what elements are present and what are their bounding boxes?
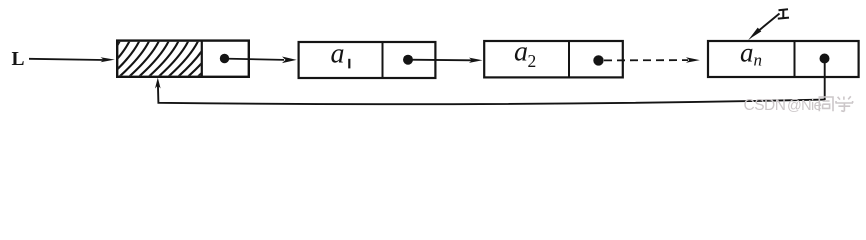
- wire r label to node an: [748, 14, 780, 41]
- node L label: [12, 49, 25, 70]
- wire a1 to a2: [408, 58, 483, 63]
- node an value label: [740, 37, 762, 69]
- svg-text:@Nie: @Nie: [787, 98, 822, 114]
- node a1 value label: [331, 38, 350, 69]
- svg-text:a: a: [331, 38, 345, 69]
- svg-text:a: a: [740, 37, 754, 67]
- wire L to head node: [29, 57, 115, 62]
- svg-text:CSDN: CSDN: [744, 97, 786, 114]
- label r (rear pointer): [778, 9, 789, 18]
- node a1 box: [299, 42, 436, 78]
- bottom wire back to head node: [155, 78, 825, 105]
- head node box: [117, 41, 249, 77]
- hatching in head node data field: [89, 41, 238, 78]
- svg-text:n: n: [754, 51, 763, 70]
- wire head node to a1: [225, 57, 297, 64]
- head node pointer dot: [220, 54, 229, 63]
- node a2 box: [484, 41, 623, 77]
- svg-text:a: a: [514, 36, 528, 67]
- wire an dot down to bottom wire: [824, 60, 826, 100]
- dashed wire a2 to an: [604, 57, 700, 63]
- watermark CSDN @Nie tong xue: [744, 96, 854, 114]
- svg-text:L: L: [12, 49, 25, 70]
- node an box: [708, 41, 859, 77]
- node a1 pointer dot: [403, 55, 413, 65]
- node a2 value label: [514, 36, 536, 71]
- node an pointer dot: [820, 54, 830, 64]
- node a2 pointer dot: [593, 55, 603, 65]
- svg-text:2: 2: [528, 51, 537, 71]
